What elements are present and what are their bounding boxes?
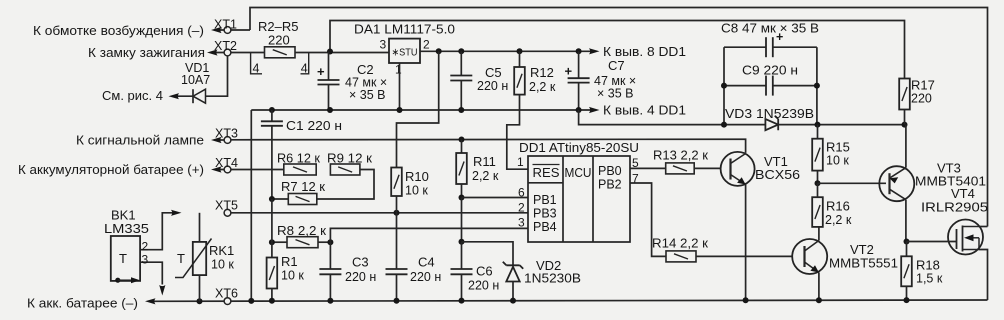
svg-text:XT6: XT6 <box>215 287 238 301</box>
svg-text:1N5230В: 1N5230В <box>524 272 581 286</box>
junction: gnd/DA1 pin1 <box>397 107 403 113</box>
terminal XT2 <box>207 49 218 55</box>
wire: +5V rail from DA1 pin 2 <box>420 50 594 52</box>
junction: +5V/R10 jog <box>436 48 442 54</box>
svg-text:1: 1 <box>517 155 524 169</box>
svg-text:2,2 к: 2,2 к <box>472 169 499 183</box>
svg-text:3: 3 <box>518 216 525 230</box>
capacitor C6 <box>461 242 463 269</box>
junction: gnd/C5 <box>458 107 464 113</box>
capacitor C8 <box>724 46 766 48</box>
svg-text:VT1: VT1 <box>764 154 788 169</box>
svg-text:BK1: BK1 <box>111 208 136 223</box>
resistor R13 <box>666 163 695 174</box>
arrow: ground to pin 4 of DD1 <box>589 107 600 113</box>
svg-text:R14 2,2 к: R14 2,2 к <box>652 237 709 251</box>
wire: PB1 line to DD1 pin 6 <box>462 197 529 199</box>
arrow and label: to battery minus <box>145 298 156 304</box>
capacitor C2 (electrolytic) <box>328 52 330 81</box>
wire: VD3 cathode to R15/R17 node <box>778 124 904 126</box>
wire: VT2 emitter to minus rail <box>818 273 820 301</box>
junction: +5V/R12 <box>517 48 523 54</box>
wire: block left riser <box>723 47 725 124</box>
transistor VT1 (npn BCX56) <box>721 152 755 186</box>
zener diode VD3 <box>765 119 778 130</box>
junction: node A / R8 <box>269 239 275 245</box>
svg-text:T: T <box>119 251 127 266</box>
capacitor C4 <box>396 213 398 269</box>
svg-text:× 35 В: × 35 В <box>597 87 634 101</box>
wire: R9 to R7 jog <box>317 170 374 200</box>
resistor R1 <box>271 199 273 258</box>
junction: C9 right <box>814 83 820 89</box>
svg-text:R10: R10 <box>405 169 429 184</box>
junction: rail / VT1 emitter <box>743 297 749 303</box>
wire: DD1 pin 5 to R13 <box>630 167 666 169</box>
svg-text:220 н: 220 н <box>345 270 376 284</box>
svg-text:C9 220 н: C9 220 н <box>742 63 798 78</box>
resistor R11 <box>461 140 463 154</box>
svg-text:3: 3 <box>380 38 387 52</box>
svg-text:R18: R18 <box>916 258 940 273</box>
svg-text:R13 2,2 к: R13 2,2 к <box>653 149 709 163</box>
wire: block right riser <box>816 47 818 124</box>
junction: VT3 collector / R18 / VT4 gate <box>904 239 910 245</box>
wire: gate line from node to VT4 <box>907 241 957 243</box>
pin 3 of BK1 with arrow to minus rail <box>140 262 162 284</box>
junction: R8 right / C3 / PB4 jog <box>318 241 330 243</box>
svg-text:К выв. 8 DD1: К выв. 8 DD1 <box>603 44 686 59</box>
svg-text:R11: R11 <box>473 154 496 169</box>
junction: gnd/C7 <box>576 107 582 113</box>
wire: DD1 pin 7 down to R14 <box>630 183 666 256</box>
resistor R15 <box>817 125 819 139</box>
svg-text:XT1: XT1 <box>214 18 237 32</box>
svg-text:1,5 к: 1,5 к <box>916 272 943 286</box>
svg-text:R16: R16 <box>826 199 850 214</box>
resistor R9 <box>330 164 360 175</box>
svg-text:R15: R15 <box>826 140 850 155</box>
junction: rail / R1 <box>269 298 275 304</box>
junction: VD3 line / R17 / VT3 emitter <box>902 122 908 128</box>
junction: rail / VT2 emitter <box>816 297 822 303</box>
svg-text:RK1: RK1 <box>209 243 234 258</box>
junction: lamp line / R11 <box>459 137 465 143</box>
svg-text:PB3: PB3 <box>533 207 557 221</box>
node: ignition line (XT2 to regulator input) <box>212 52 265 54</box>
svg-text:10 к: 10 к <box>281 269 304 283</box>
svg-text:VT3: VT3 <box>937 161 961 176</box>
divider chain on node A: R8 <box>272 241 287 243</box>
svg-text:3: 3 <box>142 253 149 267</box>
transistor VT2 (npn MMBT5551) <box>792 239 827 274</box>
junction: rail / RK1 <box>197 298 203 304</box>
junction: gnd line / C8 block left <box>721 122 727 128</box>
svg-text:PB4: PB4 <box>533 220 557 234</box>
terminal XT5 (temperature sensor line) <box>224 209 231 216</box>
svg-text:PB2: PB2 <box>598 178 622 192</box>
wire: R18 bottom to minus rail <box>906 286 908 300</box>
wire: R13 to VT1 base <box>694 167 721 169</box>
svg-text:10А7: 10А7 <box>181 73 210 87</box>
resistor R17 <box>899 79 910 110</box>
svg-text:C4: C4 <box>418 255 435 270</box>
svg-text:220 н: 220 н <box>410 270 441 284</box>
wire: XT5 line to DD1 pin 2 (PB3) <box>231 212 528 214</box>
svg-text:MCU: MCU <box>565 166 592 180</box>
svg-text:T: T <box>177 251 185 266</box>
junction: rail / C3 <box>327 298 333 304</box>
svg-text:C3: C3 <box>352 255 369 270</box>
wire: VT2 collector to R16 <box>818 227 820 241</box>
terminal XT3 (signal lamp line) <box>216 139 231 141</box>
zener diode VD2 <box>503 262 523 269</box>
resistor R18 <box>906 242 908 257</box>
svg-text:PB1: PB1 <box>533 193 557 207</box>
junction: +5V/C7 <box>576 48 582 54</box>
pin 2 of BK1 with arrow to XT5 line <box>140 213 176 250</box>
wire: battery minus rail <box>150 300 988 301</box>
wire: VT3 emitter up to VD3/R17 node <box>905 125 907 168</box>
svg-text:C5: C5 <box>485 65 502 80</box>
wire: jog from +5V down-left to R10 <box>397 51 439 167</box>
junction: rail / C4 <box>394 298 400 304</box>
svg-text:R9 12 к: R9 12 к <box>327 152 373 166</box>
junction: gnd/C1 <box>269 107 275 113</box>
resistor R14 <box>666 251 696 262</box>
wire: R7 left to divider node <box>272 198 288 200</box>
svg-text:C6: C6 <box>476 264 493 279</box>
wire: ground rail (to pin 4 of DD1) <box>251 109 594 111</box>
svg-text:К выв. 4 DD1: К выв. 4 DD1 <box>603 103 686 118</box>
IC DD1 microcontroller box <box>528 156 630 242</box>
svg-text:C8 47 мк × 35 В: C8 47 мк × 35 В <box>721 21 819 36</box>
thermistor RK1 <box>199 213 201 242</box>
svg-text:XT5: XT5 <box>215 199 238 213</box>
svg-text:2,2 к: 2,2 к <box>825 213 852 227</box>
transistor VT3 (pnp MMBT5401) <box>879 166 914 201</box>
svg-text:R6 12 к: R6 12 к <box>277 152 321 166</box>
terminal XT4 (battery plus sense) <box>216 169 284 171</box>
svg-text:C7: C7 <box>608 58 625 73</box>
wire: VT3 collector down to gate node <box>905 200 907 242</box>
svg-text:6: 6 <box>518 186 525 200</box>
svg-text:R8 2,2 к: R8 2,2 к <box>277 224 327 238</box>
svg-text:К сигнальной лампе: К сигнальной лампе <box>76 133 204 148</box>
svg-text:RES: RES <box>533 166 560 180</box>
svg-text:XT4: XT4 <box>215 156 238 170</box>
svg-text:C1 220 н: C1 220 н <box>286 118 342 133</box>
resistor R6 <box>284 164 316 175</box>
svg-text:VT4: VT4 <box>951 186 975 201</box>
svg-text:+: + <box>317 64 325 79</box>
diode VD1 with lead from XT2 <box>206 56 228 96</box>
terminal XT6 <box>224 298 231 305</box>
RES section divider of DD1 <box>528 182 563 184</box>
capacitor C5 <box>460 51 462 75</box>
capacitor C1 <box>271 110 273 121</box>
junction: C9 left <box>721 83 727 89</box>
wire: ground to VD3 anode line <box>579 110 766 125</box>
svg-text:∗STU: ∗STU <box>392 47 418 59</box>
capacitor C7 (electrolytic) <box>578 51 580 78</box>
wire: base line to VT3 <box>818 182 887 184</box>
junction: rail / VD2 <box>510 298 516 304</box>
group-of-4 tick marks with labels <box>251 52 262 74</box>
svg-text:220 н: 220 н <box>468 279 499 293</box>
wire: jog up to PB4 line to DD1 pin 3 <box>330 228 528 242</box>
capacitor C9 <box>724 85 766 87</box>
svg-text:IRLR2905: IRLR2905 <box>921 201 988 215</box>
junction: rail / R18 <box>904 297 910 303</box>
svg-text:XT3: XT3 <box>215 127 238 141</box>
junction: R15/R16/VT3 base <box>815 180 821 186</box>
resistor R16 <box>812 197 823 227</box>
wire: PB1 node down to C6/VD2 node <box>461 198 463 242</box>
svg-text:PB0: PB0 <box>598 164 622 178</box>
wire: DA1 pin1 to ground rail <box>399 63 401 110</box>
svg-text:2: 2 <box>423 38 430 52</box>
wire: R14 to VT2 base <box>696 255 792 257</box>
junction: C6 / VD2 node <box>459 239 465 245</box>
svg-text:MMBT5551: MMBT5551 <box>829 257 898 271</box>
svg-text:См. рис. 4: См. рис. 4 <box>102 88 163 103</box>
svg-text:220: 220 <box>911 92 932 106</box>
capacitor C3 <box>329 242 331 269</box>
svg-text:2,2 к: 2,2 к <box>529 80 556 94</box>
svg-text:+: + <box>565 64 573 79</box>
svg-text:LM335: LM335 <box>104 222 149 236</box>
wire: lamp line from XT3 to VT1 collector <box>231 139 746 153</box>
arrow: +5V to pin 8 of DD1 <box>589 48 600 54</box>
svg-text:4: 4 <box>253 61 260 75</box>
wire: +12V riser to R17 (upper inner bus) <box>330 21 905 79</box>
junction: +5V/C5 <box>458 48 464 54</box>
wire: VT4 source to minus rail <box>979 250 988 301</box>
svg-text:R12: R12 <box>530 65 554 80</box>
svg-text:220 н: 220 н <box>477 79 508 93</box>
svg-text:10 к: 10 к <box>211 258 234 272</box>
svg-text:× 35 В: × 35 В <box>349 88 386 102</box>
junction: R11 bottom / PB1 line <box>459 195 465 201</box>
svg-text:1: 1 <box>395 63 402 77</box>
wire: VT4 drain stub to top bus <box>979 226 988 228</box>
svg-text:BCX56: BCX56 <box>755 168 800 182</box>
wire: R12 bottom jog to DD1 pin 1 (RES) <box>507 95 528 170</box>
junction: VD3 line / R15 / C8 block right <box>815 122 821 128</box>
resistor R7 <box>288 194 317 205</box>
svg-text:10 к: 10 к <box>826 154 849 168</box>
transistor VT4 (n-channel MOSFET IRLR2905) <box>948 220 983 255</box>
svg-text:220: 220 <box>268 33 290 48</box>
wire: to zener VD2 <box>462 242 514 265</box>
svg-text:К замку зажигания: К замку зажигания <box>88 45 205 60</box>
BK1 internal adjust arrow <box>115 278 120 283</box>
wire: R17 bottom to node <box>904 110 906 125</box>
svg-text:R17: R17 <box>911 78 935 93</box>
terminal XT1 <box>216 29 250 31</box>
svg-text:XT2: XT2 <box>214 39 237 53</box>
junction: R10 bottom / C4 / PB3 line <box>394 210 400 216</box>
junction: rail / C6 <box>459 298 465 304</box>
svg-text:10 к: 10 к <box>405 184 428 198</box>
svg-text:DA1 LM1117-5.0: DA1 LM1117-5.0 <box>354 22 455 37</box>
svg-text:R1: R1 <box>281 254 298 269</box>
resistor R12 <box>519 51 521 67</box>
resistor R10 <box>391 168 402 197</box>
junction: gnd/C2 <box>327 107 333 113</box>
wire: top bus from XT1 to VT4 drain (field winding line) <box>250 8 988 226</box>
svg-text:VD3 1N5239В: VD3 1N5239В <box>725 106 814 121</box>
svg-text:К акк. батарее (–): К акк. батарее (–) <box>27 296 138 311</box>
IC DA1 voltage regulator box <box>389 39 420 63</box>
svg-text:R7 12 к: R7 12 к <box>281 180 326 194</box>
junction: rail / left ground drop <box>248 298 254 304</box>
junction: divider node A / R7 <box>269 196 275 202</box>
svg-text:2: 2 <box>518 201 525 215</box>
svg-text:К обмотке возбуждения (–): К обмотке возбуждения (–) <box>33 23 204 38</box>
resistor R2-R5 <box>265 47 296 58</box>
wire: ground drop at left edge down to battery minus rail <box>250 110 252 301</box>
wire: R15 bottom to VT3 base node <box>817 171 819 184</box>
svg-text:VT2: VT2 <box>850 242 874 257</box>
svg-text:2: 2 <box>142 240 149 254</box>
wire: VT1 emitter to minus rail <box>745 185 747 301</box>
sensor BK1 LM335 <box>111 236 140 281</box>
svg-text:DD1 ATtiny85-20SU: DD1 ATtiny85-20SU <box>519 140 639 155</box>
junction: XT2/R2-R5/C2/DA1 node <box>327 49 333 55</box>
svg-text:К аккумуляторной батарее (+): К аккумуляторной батарее (+) <box>18 162 204 177</box>
svg-text:4: 4 <box>301 61 308 75</box>
